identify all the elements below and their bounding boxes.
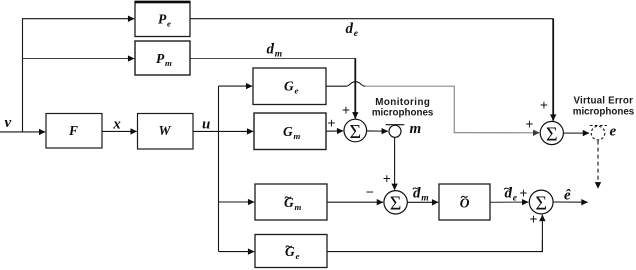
- svg-text:ê: ê: [564, 188, 571, 204]
- svg-text:+: +: [530, 212, 538, 227]
- svg-text:+: +: [520, 186, 528, 201]
- svg-text:W: W: [159, 123, 172, 138]
- svg-text:Σ: Σ: [390, 193, 402, 215]
- svg-text:Σ: Σ: [546, 123, 558, 145]
- svg-text:m: m: [410, 121, 422, 137]
- svg-text:Virtual Error: Virtual Error: [574, 96, 634, 107]
- svg-text:microphones: microphones: [573, 107, 635, 118]
- svg-text:+: +: [540, 98, 548, 113]
- svg-text:e: e: [610, 124, 617, 140]
- svg-text:+: +: [526, 117, 534, 132]
- svg-text:+: +: [342, 103, 350, 118]
- svg-text:x: x: [112, 117, 121, 133]
- svg-text:u: u: [202, 117, 210, 133]
- svg-text:+: +: [383, 171, 391, 186]
- svg-text:Monitoring: Monitoring: [375, 97, 430, 108]
- svg-text:F: F: [68, 123, 78, 138]
- svg-text:v: v: [5, 115, 12, 131]
- svg-text:Σ: Σ: [349, 121, 361, 143]
- svg-text:+: +: [328, 116, 336, 131]
- svg-text:−: −: [366, 185, 374, 200]
- svg-text:microphones: microphones: [372, 107, 434, 118]
